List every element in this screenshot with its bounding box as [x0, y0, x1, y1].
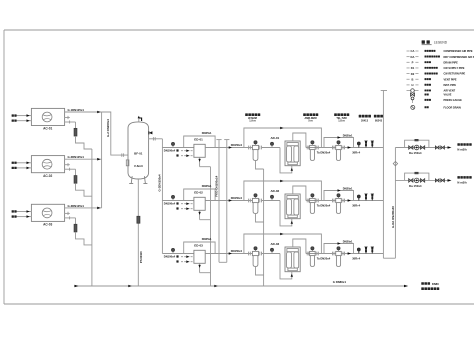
- svg-text:DRY COMPRESSED AIR PIPE: DRY COMPRESSED AIR PIPE: [444, 56, 474, 59]
- svg-text:DN25x1: DN25x1: [202, 131, 212, 135]
- svg-text:1.8 m: 1.8 m: [338, 120, 345, 123]
- svg-text:INST. PIPE: INST. PIPE: [444, 84, 457, 87]
- label after-filter1 column: [303, 113, 306, 116]
- cooling water lines ED-02: [181, 203, 194, 205]
- svg-text:AD-03: AD-03: [271, 242, 280, 246]
- train bypass 1: [244, 128, 322, 148]
- svg-text:G-3DN150x4: G-3DN150x4: [158, 174, 162, 191]
- svg-text:DN100x4: DN100x4: [164, 201, 176, 205]
- svg-text:DN150x4: DN150x4: [231, 249, 243, 253]
- label plant network: [359, 115, 362, 118]
- thermometer train 2 a: [365, 194, 367, 201]
- svg-text:ED-03: ED-03: [194, 244, 203, 248]
- svg-text:ED-01: ED-01: [194, 138, 203, 142]
- discharge line AC-03: [65, 207, 102, 209]
- ED bypass train 1: [184, 136, 215, 148]
- drain line AC-03: [65, 217, 76, 219]
- train bypass 2: [244, 181, 322, 201]
- svg-text:AC-02: AC-02: [43, 174, 52, 178]
- border frame: [4, 29, 474, 31]
- svg-text:ED-02: ED-02: [194, 191, 203, 195]
- vent riser U-bottom: [219, 261, 227, 263]
- vessel drain pipe: [137, 179, 139, 286]
- dryer inlet drop train 1: [280, 148, 292, 173]
- svg-text:AC-01: AC-01: [43, 127, 52, 131]
- legend row circle symbol: [407, 90, 419, 92]
- svg-text:DN20x1: DN20x1: [343, 133, 353, 137]
- branch 1 valves: [409, 146, 413, 149]
- air inlet lines AC-02: [16, 162, 32, 164]
- legend title: [422, 40, 425, 43]
- main line train 1 segment 1: [205, 147, 252, 149]
- legend row D2: [407, 73, 419, 75]
- svg-text:COMPRESSED AIR PIPE: COMPRESSED AIR PIPE: [444, 50, 473, 53]
- svg-text:DN20x1: DN20x1: [343, 186, 353, 190]
- adsorption dryer AD-03: [285, 247, 300, 272]
- legend row CA: [407, 50, 419, 52]
- gauge before dryer train 1: [271, 145, 273, 147]
- svg-text:DN150x4: DN150x4: [231, 196, 243, 200]
- air inlet lines AC-01: [16, 115, 32, 117]
- drain valve AC-03: [74, 224, 77, 232]
- dryer inlet drop train 2: [280, 201, 292, 226]
- label after-filter2 column: [334, 113, 337, 116]
- vessel outlet pipe: [149, 138, 163, 140]
- pressure gauge ED-01: [172, 145, 174, 147]
- svg-text:N m3/h: N m3/h: [457, 181, 467, 185]
- svg-text:D1: D1: [411, 66, 415, 70]
- svg-text:DN100x4: DN100x4: [164, 148, 176, 152]
- dryer outlet train 3: [293, 239, 306, 254]
- vent stack riser: [382, 91, 384, 259]
- main line train 3 segment 1: [205, 253, 252, 255]
- main line train 1 segment 2: [262, 147, 281, 149]
- branch 1 user label: [457, 143, 460, 146]
- cooling water lines ED-01: [181, 150, 194, 152]
- svg-text:H: H: [412, 83, 414, 87]
- svg-text:Ta DN20x4: Ta DN20x4: [317, 203, 331, 207]
- train bypass 3: [244, 234, 322, 254]
- main line train 2 segment 3: [306, 200, 336, 202]
- svg-text:30R+4: 30R+4: [352, 256, 360, 260]
- svg-text:AC-03: AC-03: [43, 223, 52, 227]
- pre-filter train 2: [248, 199, 250, 203]
- user branch 1 line: [395, 147, 447, 149]
- svg-text:DA: DA: [411, 55, 415, 59]
- svg-text:DN80: DN80: [432, 282, 439, 286]
- drain line AC-01: [65, 121, 76, 123]
- vessel vent valve: [138, 117, 140, 122]
- after-filter 2 bypass train 1: [324, 138, 354, 148]
- svg-text:V-6m3: V-6m3: [134, 164, 143, 168]
- svg-text:CW RETURN PIPE: CW RETURN PIPE: [444, 73, 466, 76]
- discharge line AC-01: [65, 111, 102, 113]
- pressure gauge ED-02: [172, 198, 174, 200]
- legend row D1: [407, 67, 419, 69]
- aftercooler ED-03: [194, 250, 205, 263]
- pre-filter drain train 1: [256, 161, 264, 170]
- main line train 3 segment 4: [341, 253, 383, 255]
- svg-text:G-DA DN200x40: G-DA DN200x40: [391, 206, 395, 228]
- compressor AC-02: [31, 156, 64, 173]
- branch 2 bypass loop: [405, 173, 429, 180]
- svg-text:FLOOR DRAIN: FLOOR DRAIN: [444, 107, 462, 110]
- after-filter 1 train 1: [310, 145, 316, 149]
- svg-text:Ta DN20x4: Ta DN20x4: [317, 256, 331, 260]
- compressor drain bus: [91, 149, 93, 286]
- vessel drain valve: [137, 216, 140, 223]
- capped stub AC-03: [65, 212, 70, 214]
- main line train 2 segment 2: [262, 200, 281, 202]
- cooling water lines ED-03: [181, 256, 194, 258]
- svg-text:CA: CA: [411, 49, 415, 53]
- thermometer train 2 b: [371, 194, 373, 201]
- branch 2 user label: [457, 176, 460, 179]
- svg-text:1.9 m: 1.9 m: [249, 120, 256, 123]
- svg-text:PS DN40: PS DN40: [139, 251, 143, 263]
- legend row drain: [411, 105, 415, 109]
- svg-text:DN25x1: DN25x1: [202, 237, 212, 241]
- drain destination label: [421, 282, 424, 285]
- compressor AC-01: [31, 108, 64, 125]
- legend row DA: [407, 56, 419, 58]
- ED bypass train 3: [184, 242, 215, 254]
- capped stub AC-02: [65, 164, 70, 166]
- legend row gauge: [412, 100, 414, 103]
- after-filter 1 train 2: [310, 198, 316, 202]
- dryer inlet drop train 3: [280, 254, 292, 279]
- branch 2 valves: [409, 179, 413, 182]
- svg-text:G-2DN125x1: G-2DN125x1: [68, 155, 85, 159]
- svg-text:DN150x4: DN150x4: [231, 143, 243, 147]
- drain valve AC-01: [74, 128, 77, 136]
- vessel legs: [131, 176, 132, 183]
- svg-text:VALVE: VALVE: [444, 94, 452, 97]
- label pre-filter column: [245, 113, 248, 116]
- discharge header pipe: [101, 112, 103, 208]
- ED inlet pipe train 2: [162, 200, 194, 202]
- after-filter 2 train 3: [332, 252, 334, 256]
- dryer outlet train 2: [293, 186, 306, 201]
- vent riser pipe A: [218, 140, 220, 262]
- ED drain train 2: [199, 210, 201, 219]
- pre-filter drain train 3: [256, 267, 264, 276]
- pre-filter drain train 2: [256, 214, 264, 223]
- air inlet lines AC-03: [16, 211, 32, 213]
- vessel safety valve: [149, 131, 153, 134]
- reducer on product header: [393, 161, 397, 165]
- main line train 1 segment 3: [306, 147, 336, 149]
- svg-text:G DN80x1: G DN80x1: [333, 280, 347, 284]
- svg-text:LEGEND: LEGEND: [434, 41, 448, 45]
- after-filter 2 train 1: [332, 146, 334, 150]
- gauge before dryer train 2: [271, 198, 273, 200]
- svg-text:CW SUPPLY PIPE: CW SUPPLY PIPE: [444, 67, 465, 70]
- thermometer train 1 b: [371, 141, 373, 148]
- svg-text:30R+4: 30R+4: [352, 203, 360, 207]
- legend row B: [407, 78, 419, 80]
- svg-text:DN25x1: DN25x1: [202, 184, 212, 188]
- svg-text:80243: 80243: [375, 119, 383, 122]
- svg-text:B: B: [412, 77, 414, 81]
- after-filter 2 train 2: [332, 199, 334, 203]
- svg-text:DRAIN PIPE: DRAIN PIPE: [444, 61, 459, 64]
- branch 1 bypass loop: [405, 140, 429, 147]
- after-filter 1 train 3: [310, 251, 316, 255]
- svg-text:Da 150x4: Da 150x4: [409, 151, 422, 155]
- svg-text:30R+4: 30R+4: [352, 150, 360, 154]
- main line train 2 segment 4: [341, 200, 383, 202]
- svg-text:P: P: [412, 61, 414, 65]
- main line train 3 segment 2: [262, 253, 281, 255]
- ED inlet pipe train 3: [162, 253, 194, 255]
- svg-text:AD-02: AD-02: [271, 189, 280, 193]
- condensate drain line: [74, 285, 404, 287]
- prefilter condensate bus: [263, 169, 265, 286]
- main line train 1 segment 4: [341, 147, 383, 149]
- aftercooler ED-01: [194, 144, 205, 157]
- after-filter 2 bypass train 2: [324, 191, 354, 201]
- svg-text:D2: D2: [411, 72, 415, 76]
- main line train 3 segment 3: [306, 253, 336, 255]
- collector bottom connect: [383, 257, 395, 259]
- svg-text:AIR VENT: AIR VENT: [444, 90, 456, 93]
- thermometer train 3 a: [365, 247, 367, 254]
- svg-text:PRESS GAUGE: PRESS GAUGE: [444, 99, 463, 102]
- legend row valve: [411, 93, 415, 96]
- svg-text:G-3DN125x1: G-3DN125x1: [68, 204, 85, 208]
- svg-text:DN100x4: DN100x4: [164, 254, 176, 258]
- dryer outlet train 1: [293, 133, 306, 148]
- aftercooler ED-02: [194, 197, 205, 210]
- drain line AC-02: [65, 168, 76, 170]
- adsorption dryer AD-02: [285, 194, 300, 219]
- adsorption dryer AD-01: [285, 141, 300, 166]
- sample point train 1: [358, 145, 360, 148]
- ED condensate bus: [210, 167, 212, 286]
- svg-text:DN20x1: DN20x1: [343, 239, 353, 243]
- pressure gauge ED-03: [172, 251, 174, 253]
- sample point train 2: [358, 198, 360, 201]
- pre-filter train 3: [248, 252, 250, 256]
- product header: [394, 148, 396, 259]
- discharge line AC-02: [65, 158, 102, 160]
- svg-text:N m3/h: N m3/h: [457, 148, 467, 152]
- air receiver BF-01: [128, 122, 149, 179]
- thermometer train 3 b: [371, 247, 373, 254]
- ED bypass train 2: [184, 189, 215, 201]
- main line train 2 segment 1: [205, 200, 252, 202]
- drain valve AC-02: [74, 176, 77, 184]
- user branch 2 line: [395, 179, 447, 181]
- receiver inlet pipe: [102, 112, 129, 155]
- svg-text:AD-01: AD-01: [271, 136, 280, 140]
- pre-filter train 1: [248, 146, 250, 150]
- ED inlet pipe train 1: [162, 147, 194, 149]
- compressor AC-03: [31, 204, 64, 221]
- ED drain train 1: [199, 157, 201, 166]
- svg-text:BF-01: BF-01: [134, 152, 143, 156]
- gauge before dryer train 3: [271, 251, 273, 253]
- legend row H: [407, 84, 419, 86]
- svg-text:VENT PIPE: VENT PIPE: [444, 78, 457, 81]
- vent riser pipe B: [226, 140, 228, 262]
- svg-text:Ta DN20x4: Ta DN20x4: [317, 150, 331, 154]
- ED drain train 3: [199, 263, 201, 272]
- svg-text:G-2 DN200x4: G-2 DN200x4: [106, 119, 110, 137]
- svg-text:Da 150x4: Da 150x4: [409, 184, 422, 188]
- distribution header pipe: [161, 139, 163, 254]
- capped stub AC-01: [65, 117, 70, 119]
- after-filter 2 bypass train 3: [324, 244, 354, 254]
- sample point train 3: [358, 251, 360, 254]
- vessel manhole: [126, 160, 129, 166]
- legend row P: [407, 61, 419, 63]
- svg-text:20413: 20413: [361, 119, 369, 122]
- svg-text:G-1DN125x1: G-1DN125x1: [68, 108, 85, 112]
- thermometer train 1 a: [365, 141, 367, 148]
